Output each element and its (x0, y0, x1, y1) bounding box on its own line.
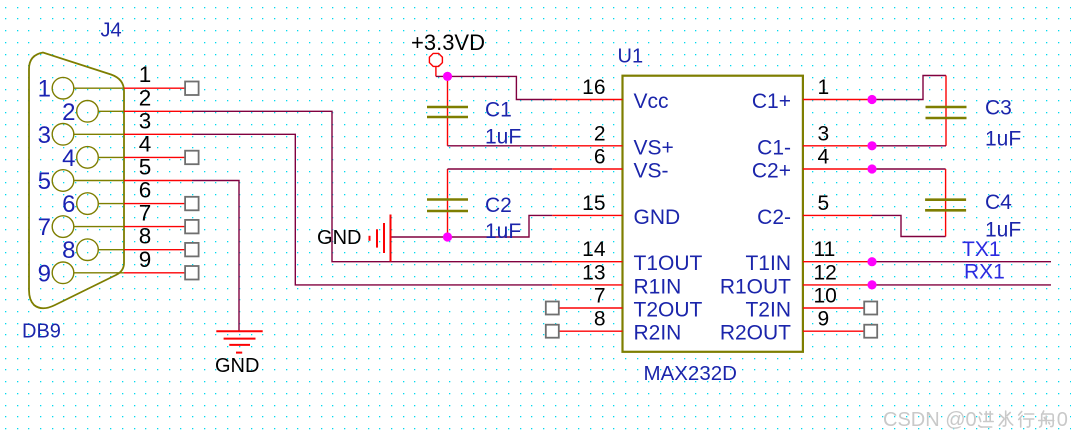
svg-text:16: 16 (582, 76, 605, 99)
svg-text:VS-: VS- (634, 160, 669, 183)
svg-text:R2IN: R2IN (634, 322, 682, 345)
svg-text:TX1: TX1 (962, 238, 1001, 261)
svg-text:6: 6 (62, 191, 75, 218)
svg-text:9: 9 (38, 260, 51, 287)
svg-text:5: 5 (139, 155, 152, 180)
svg-text:7: 7 (38, 214, 51, 241)
svg-text:MAX232D: MAX232D (644, 362, 737, 385)
svg-text:6: 6 (139, 178, 152, 203)
svg-text:5: 5 (38, 168, 51, 195)
svg-text:T1IN: T1IN (745, 252, 791, 275)
svg-text:4: 4 (139, 131, 152, 156)
svg-text:8: 8 (62, 237, 75, 264)
svg-text:C1: C1 (485, 99, 512, 122)
svg-text:C1-: C1- (757, 136, 791, 159)
svg-text:9: 9 (139, 247, 152, 272)
svg-text:C2: C2 (485, 194, 512, 217)
svg-text:U1: U1 (618, 46, 644, 68)
svg-text:8: 8 (139, 224, 152, 249)
svg-text:1uF: 1uF (485, 220, 521, 243)
svg-text:J4: J4 (101, 20, 122, 42)
svg-text:13: 13 (582, 261, 605, 284)
svg-text:C2+: C2+ (752, 160, 791, 183)
svg-text:R1IN: R1IN (634, 275, 682, 298)
svg-text:8: 8 (594, 308, 606, 331)
svg-text:+3.3VD: +3.3VD (411, 30, 485, 55)
svg-text:2: 2 (139, 85, 152, 110)
svg-text:Vcc: Vcc (634, 90, 669, 113)
svg-text:C2-: C2- (757, 206, 791, 229)
svg-text:T1OUT: T1OUT (634, 252, 703, 275)
svg-text:10: 10 (814, 285, 837, 308)
svg-text:0: 0 (1057, 409, 1068, 431)
svg-text:1: 1 (139, 62, 152, 87)
svg-text:11: 11 (814, 238, 836, 261)
svg-text:4: 4 (818, 146, 830, 169)
svg-text:C3: C3 (985, 97, 1012, 120)
svg-text:DB9: DB9 (22, 321, 61, 343)
svg-text:4: 4 (62, 145, 75, 172)
svg-text:7: 7 (139, 201, 152, 226)
svg-text:RX1: RX1 (964, 261, 1005, 284)
svg-text:3: 3 (139, 108, 152, 133)
svg-text:VS+: VS+ (634, 136, 674, 159)
svg-text:T2IN: T2IN (745, 299, 791, 322)
svg-text:R2OUT: R2OUT (720, 322, 791, 345)
svg-text:2: 2 (594, 122, 606, 145)
svg-text:GND: GND (317, 227, 361, 249)
svg-text:C1+: C1+ (752, 90, 791, 113)
svg-text:6: 6 (594, 146, 606, 169)
svg-text:5: 5 (818, 192, 830, 215)
svg-text:R1OUT: R1OUT (720, 275, 791, 298)
svg-text:7: 7 (594, 285, 606, 308)
svg-text:T2OUT: T2OUT (634, 299, 703, 322)
svg-text:1uF: 1uF (985, 128, 1021, 151)
svg-text:1uF: 1uF (485, 126, 521, 149)
svg-text:3: 3 (818, 122, 830, 145)
svg-text:GND: GND (215, 355, 259, 377)
svg-text:C4: C4 (985, 191, 1012, 214)
svg-text:14: 14 (582, 238, 606, 261)
svg-text:12: 12 (814, 261, 837, 284)
svg-text:1: 1 (38, 76, 51, 103)
svg-text:GND: GND (634, 206, 681, 229)
svg-text:2: 2 (62, 99, 75, 126)
svg-text:3: 3 (38, 122, 51, 149)
svg-text:15: 15 (582, 192, 605, 215)
svg-text:CSDN @0: CSDN @0 (883, 409, 977, 431)
svg-text:1: 1 (818, 76, 830, 99)
svg-text:9: 9 (818, 308, 830, 331)
